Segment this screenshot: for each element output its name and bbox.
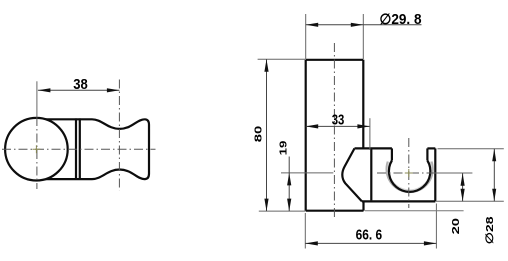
dia29.8 ext left [305, 14, 307, 59]
dim 33 line [306, 125, 370, 127]
dim 66.6 arrow left [305, 241, 318, 245]
dia29.8 arrow right [351, 23, 364, 27]
tube top edge [306, 59, 364, 61]
dim 19 arrow up [287, 173, 291, 186]
dim dia28 arrow up [492, 149, 496, 162]
cradle center mark [405, 169, 413, 177]
svg-text:19: 19 [279, 140, 290, 155]
inner cradle arc [389, 161, 430, 192]
svg-text:33: 33 [332, 113, 345, 129]
ext top left (tube top) [258, 58, 306, 60]
svg-text:∅29. 8: ∅29. 8 [380, 12, 422, 28]
dim 33 ext right [369, 118, 371, 150]
flange line 1 [75, 118, 77, 180]
vertical centerline spool [118, 80, 120, 191]
center mark circle [32, 145, 40, 153]
step vertical [362, 201, 364, 210]
slot left wall [391, 148, 393, 160]
dim 33 arrow left [306, 124, 319, 128]
dim 66.6 ext left [304, 213, 306, 249]
slot right wall [426, 148, 428, 160]
cradle vertical centerline [408, 138, 410, 208]
svg-text:38: 38 [73, 77, 88, 93]
wall plate circle [5, 118, 68, 181]
dim 20 line [462, 173, 464, 201]
dia29.8 ext right [362, 14, 364, 59]
outer cradle arc [386, 162, 433, 193]
knob spool outline [45, 119, 149, 179]
dim 38 arrow left [38, 88, 51, 92]
dim 38 line [38, 89, 120, 91]
dim 19 arrow down [287, 199, 291, 212]
right end wall [434, 148, 436, 201]
dim 80 arrow bottom [264, 199, 268, 212]
top right edge [427, 147, 435, 149]
svg-text:∅28: ∅28 [484, 216, 496, 244]
ext bottom left (tube bottom) [259, 210, 305, 212]
horizontal centerline left view [2, 148, 156, 150]
tube centerline [333, 43, 335, 218]
outer cradle gray band [388, 162, 431, 191]
tube bottom edge [306, 210, 364, 212]
dim dia28 arrow down [492, 189, 496, 202]
tube right edge [362, 60, 364, 149]
dim 20 arrow down [461, 189, 465, 202]
dim 38 arrow right [107, 88, 120, 92]
vertical centerline circle [36, 81, 38, 117]
dim 80 line [266, 59, 268, 211]
dim 20 arrow up [461, 173, 465, 186]
svg-text:66. 6: 66. 6 [356, 228, 383, 244]
tube left edge [305, 60, 307, 211]
dim 19 line [288, 157, 290, 212]
dim 33 arrow right [357, 124, 370, 128]
dim 66.6 arrow right [424, 241, 437, 245]
ext tube-bottom right [365, 210, 464, 212]
wedge chamfer curve [342, 148, 362, 201]
dim 66.6 line [305, 242, 436, 244]
arm top edge [355, 147, 392, 149]
dim 80 arrow top [264, 59, 268, 71]
cradle horizontal centerline [377, 172, 433, 174]
arm bottom edge [362, 200, 435, 202]
dim 19 ext top [281, 172, 333, 174]
cradle block left wall [370, 149, 372, 200]
svg-text:20: 20 [451, 218, 462, 235]
dia29.8 arrow left [306, 23, 319, 27]
dim 66.6 ext right [435, 204, 437, 249]
svg-text:80: 80 [254, 125, 265, 142]
dim dia28 line [493, 149, 495, 202]
flange line 2 [79, 118, 81, 180]
ext arm-top right [438, 148, 504, 150]
dia29.8 dim line [306, 24, 422, 26]
ext arm-bottom right [436, 200, 504, 202]
